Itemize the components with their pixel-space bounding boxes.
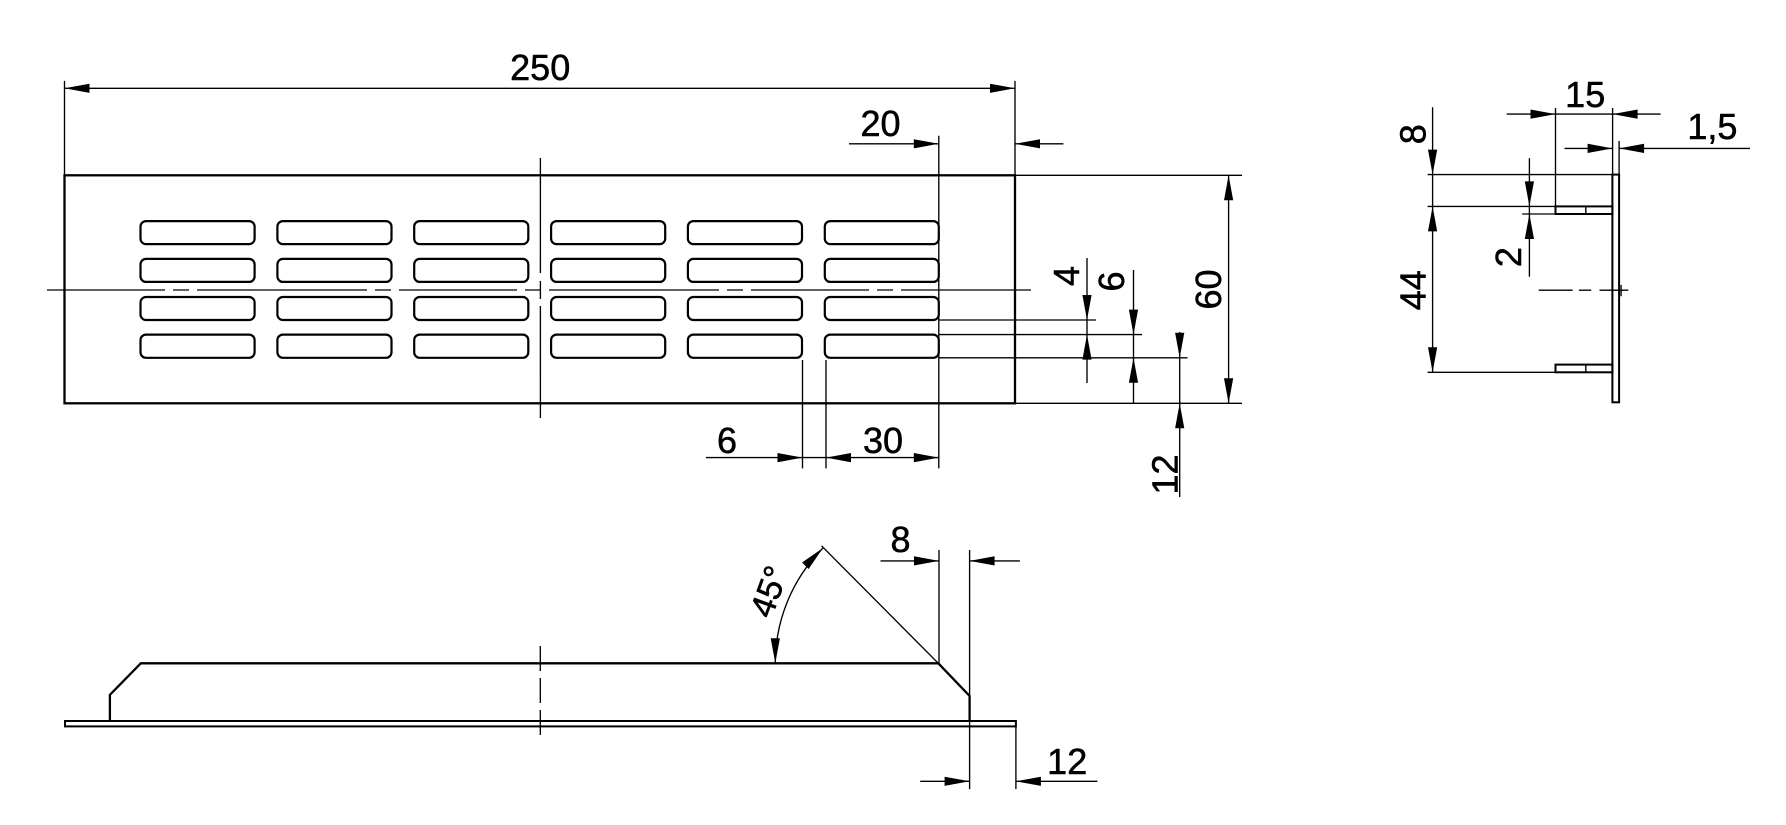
vent slot r3c3 bbox=[414, 297, 528, 320]
dim line 60 bbox=[1228, 175, 1230, 403]
ext line left (250) bbox=[64, 81, 66, 175]
dim line 2 bbox=[1528, 158, 1530, 277]
svg-text:8: 8 bbox=[890, 519, 910, 560]
dim line 1,5 right part bbox=[1619, 147, 1750, 149]
ext line flange bottom (2) bbox=[1522, 213, 1556, 215]
vent slot r1c6 bbox=[825, 221, 939, 244]
side view centerline bbox=[539, 646, 541, 736]
arrow 8/44 shared bbox=[1428, 206, 1437, 231]
vent slot r4c5 bbox=[688, 335, 802, 358]
arrow 60 top bbox=[1224, 175, 1233, 200]
arrow 6 upper bbox=[1129, 310, 1138, 335]
45 deg construction line bbox=[822, 546, 939, 664]
ext line plate bottom (60/12) bbox=[1015, 402, 1242, 404]
vent slot r4c2 bbox=[277, 335, 391, 358]
dim line 8 left part bbox=[881, 560, 940, 562]
arrow 6 lower bbox=[1129, 358, 1138, 383]
arrow 6 bottom left bbox=[778, 453, 803, 462]
vent slot r3c5 bbox=[688, 297, 802, 320]
arrow 30 left bbox=[826, 453, 851, 462]
dim line 20 left part bbox=[849, 143, 939, 145]
vent slot r1c2 bbox=[277, 221, 391, 244]
arrow 4 lower bbox=[1082, 335, 1091, 360]
dim line 30 bbox=[826, 457, 939, 459]
vent slot r1c3 bbox=[414, 221, 528, 244]
top view vertical centerline bbox=[539, 158, 541, 418]
arrow 12 upper bbox=[1175, 333, 1184, 358]
vent slot r1c1 bbox=[141, 221, 255, 244]
vent slot r2c3 bbox=[414, 259, 528, 282]
vent slot r1c5 bbox=[688, 221, 802, 244]
svg-text:8: 8 bbox=[1393, 124, 1434, 144]
ext line row4 bottom bbox=[939, 357, 1188, 359]
vent slot r3c6 bbox=[825, 297, 939, 320]
dim line 8/44 end view bbox=[1432, 107, 1434, 372]
vent slot r2c6 bbox=[825, 259, 939, 282]
svg-text:60: 60 bbox=[1188, 269, 1229, 309]
lower flange joint line bbox=[1585, 365, 1587, 373]
ext line row4 top bbox=[939, 334, 1142, 336]
arrow 20 left (tip at slot edge) bbox=[914, 139, 939, 148]
svg-text:44: 44 bbox=[1393, 270, 1434, 310]
arrow 1,5 right bbox=[1619, 144, 1644, 153]
svg-text:12: 12 bbox=[1047, 741, 1087, 782]
arrow 12 right bbox=[1016, 777, 1041, 786]
centerline tick bbox=[1620, 285, 1622, 296]
ext line lower flange bottom (44) bbox=[1428, 371, 1556, 373]
ext line sheet right (1,5) bbox=[1618, 141, 1620, 175]
vent slot r4c4 bbox=[551, 335, 665, 358]
arrow 60 bottom bbox=[1224, 378, 1233, 403]
arrow 12 lower bbox=[1175, 403, 1184, 428]
svg-text:12: 12 bbox=[1145, 454, 1186, 494]
arrow 250 left bbox=[65, 84, 90, 93]
dim line 12 right part bbox=[1016, 780, 1098, 782]
dim line 20 right part bbox=[1015, 143, 1063, 145]
end view: lower flange bbox=[1556, 365, 1613, 373]
arrow 15 right bbox=[1613, 110, 1638, 119]
arrow 8 right bbox=[970, 556, 995, 565]
arrow 1,5 left bbox=[1588, 144, 1613, 153]
vent slot r2c1 bbox=[141, 259, 255, 282]
dim line 8 right part bbox=[970, 560, 1020, 562]
svg-text:250: 250 bbox=[510, 47, 570, 88]
vent slot r1c4 bbox=[551, 221, 665, 244]
side view: extruded profile outline bbox=[110, 663, 970, 721]
ext line bevel top corner (8) bbox=[938, 550, 940, 663]
vent slot r3c2 bbox=[277, 297, 391, 320]
dim line 4 bbox=[1086, 258, 1088, 383]
svg-text:20: 20 bbox=[860, 103, 900, 144]
side view: base sheet bbox=[65, 721, 1016, 726]
dim line 15 right part bbox=[1556, 113, 1661, 115]
arrow 44 bottom bbox=[1428, 347, 1437, 372]
svg-text:1,5: 1,5 bbox=[1687, 106, 1737, 147]
svg-text:4: 4 bbox=[1046, 266, 1087, 286]
vent slot r2c2 bbox=[277, 259, 391, 282]
end view: upper flange bbox=[1556, 206, 1613, 214]
arrow 20 right (tip at plate edge) bbox=[1015, 139, 1040, 148]
ext line bevel bottom corner (8/12) bbox=[969, 550, 971, 789]
ext line sheet left (15/1,5) bbox=[1612, 108, 1614, 175]
dim line 6 bottom bbox=[706, 457, 826, 459]
top view: grille plate outline bbox=[65, 175, 1016, 403]
arrow 8 end top bbox=[1428, 150, 1437, 175]
vent slot r3c4 bbox=[551, 297, 665, 320]
ext line flange left (15) bbox=[1555, 108, 1557, 206]
ext line sheet top (8) bbox=[1428, 174, 1613, 176]
end view: sheet cross-section bbox=[1612, 175, 1619, 403]
vent slot r4c3 bbox=[414, 335, 528, 358]
dim line 15 left part bbox=[1507, 113, 1556, 115]
svg-text:15: 15 bbox=[1565, 74, 1605, 115]
ext line flange top (8/44/2) bbox=[1428, 205, 1556, 207]
end view centerline bbox=[1539, 289, 1573, 291]
arc arrow lower bbox=[771, 638, 780, 663]
ext line col6 left edge bbox=[825, 360, 827, 468]
dim line 12 top view bbox=[1179, 332, 1181, 497]
top view horizontal centerline bbox=[47, 289, 1031, 291]
upper flange joint line bbox=[1585, 206, 1587, 214]
45 deg dimension arc bbox=[775, 548, 823, 663]
svg-text:6: 6 bbox=[717, 420, 737, 461]
dim line 250 bbox=[65, 87, 1016, 89]
svg-text:2: 2 bbox=[1488, 247, 1529, 267]
ext line col5 right edge bbox=[802, 360, 804, 468]
dim line 1,5 left part bbox=[1565, 147, 1613, 149]
ext line base sheet right end (12) bbox=[1015, 727, 1017, 789]
ext line slot col6 right edge (20/30) bbox=[938, 136, 940, 469]
vent slot r4c1 bbox=[141, 335, 255, 358]
ext line right (250/20) bbox=[1014, 81, 1016, 175]
arc arrow upper bbox=[802, 548, 823, 569]
svg-text:45°: 45° bbox=[743, 561, 796, 622]
svg-text:30: 30 bbox=[863, 420, 903, 461]
dim line 6 right bbox=[1133, 270, 1135, 403]
arrow 4 upper bbox=[1082, 295, 1091, 320]
vent slot r2c5 bbox=[688, 259, 802, 282]
arrow 12 left bbox=[945, 777, 970, 786]
arrow 30 right bbox=[914, 453, 939, 462]
arrow 8 left bbox=[914, 556, 939, 565]
svg-text:6: 6 bbox=[1091, 271, 1132, 291]
arrow 250 right bbox=[990, 84, 1015, 93]
vent slot r4c6 bbox=[825, 335, 939, 358]
arrow 15 left bbox=[1531, 110, 1556, 119]
dim line 12 left part bbox=[920, 780, 969, 782]
vent slot r3c1 bbox=[141, 297, 255, 320]
arrow 2 top bbox=[1525, 181, 1534, 206]
vent slot r2c4 bbox=[551, 259, 665, 282]
ext line plate top (60) bbox=[1015, 174, 1242, 176]
arrow 2 bottom bbox=[1525, 214, 1534, 239]
ext line row3 bottom bbox=[939, 319, 1096, 321]
